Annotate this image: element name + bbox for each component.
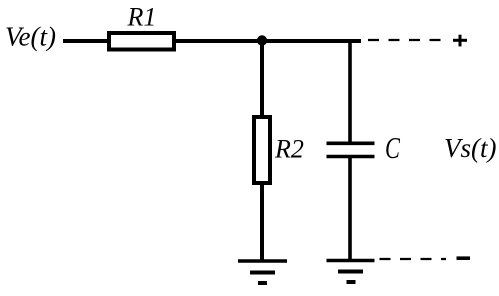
plus terminal <box>453 35 467 47</box>
resistor R1 <box>109 33 174 50</box>
wire (dashed) to - terminal <box>380 258 447 260</box>
wire R1 to capacitor branch <box>174 39 361 43</box>
wire top to capacitor <box>348 39 352 142</box>
ground (right, below C) <box>327 261 375 283</box>
capacitor C <box>327 143 375 156</box>
svg-text:C: C <box>385 130 401 164</box>
svg-text:Ve(t): Ve(t) <box>5 22 56 52</box>
wire input to R1 <box>63 39 109 43</box>
wire node to R2 <box>260 40 264 118</box>
resistor R2 <box>254 117 270 183</box>
svg-text:R2: R2 <box>274 135 304 164</box>
ground (left, below R2) <box>238 261 287 283</box>
wire capacitor to ground <box>348 158 352 261</box>
wire (dashed) to + terminal <box>368 39 441 41</box>
minus terminal <box>457 256 471 260</box>
svg-text:Vs(t): Vs(t) <box>444 133 496 163</box>
junction node <box>257 35 267 45</box>
svg-text:R1: R1 <box>127 3 157 32</box>
wire R2 to ground <box>260 183 264 261</box>
